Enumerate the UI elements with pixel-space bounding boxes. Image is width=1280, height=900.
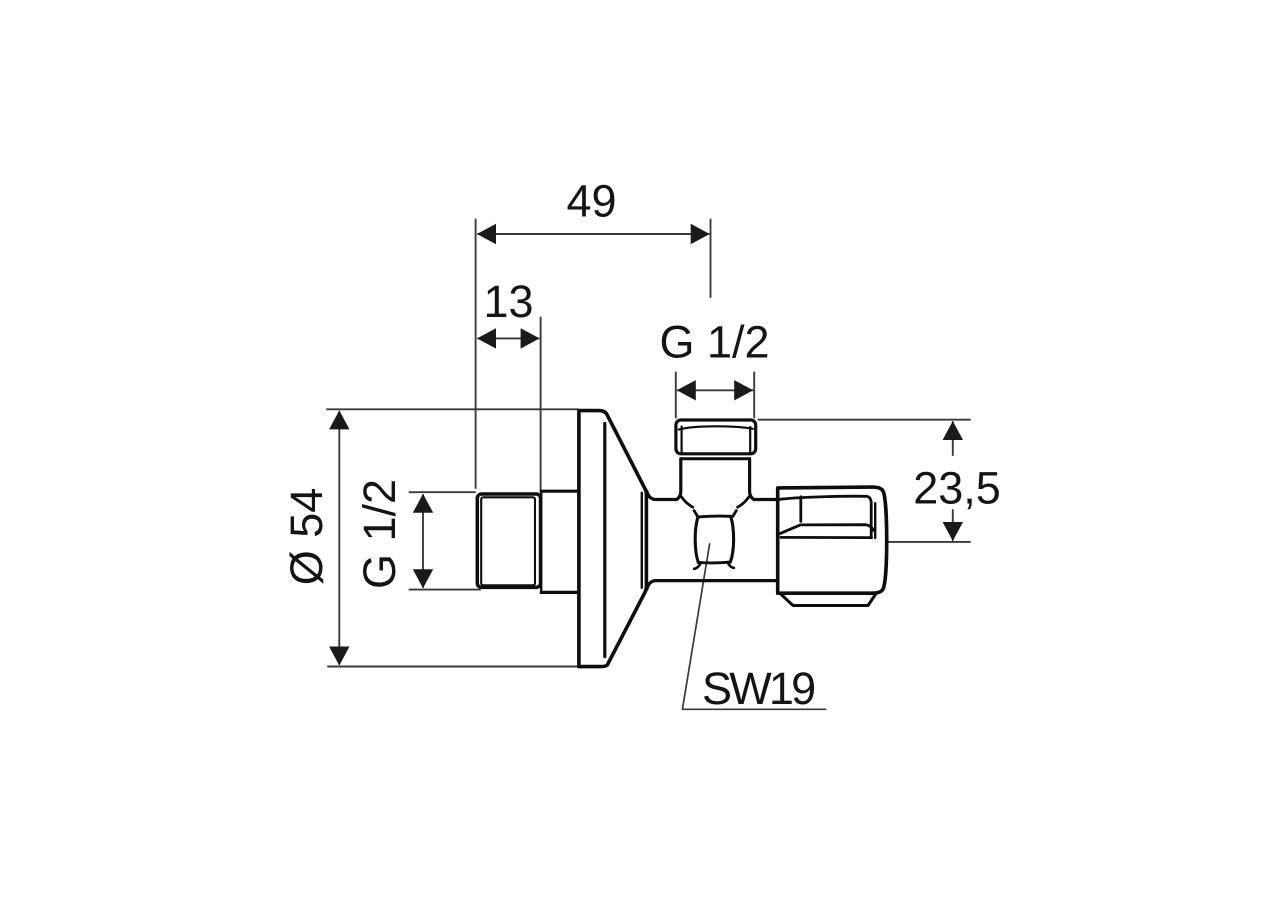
inlet shank bottom edge [541,591,579,594]
handle knob inner left groove [799,497,802,522]
SW19 leader line [682,544,825,709]
dimension 23,5 dimension line upper [952,422,954,455]
valve body top-left edge with fillets [647,459,681,500]
dimension 49 extension line left [475,220,477,489]
dimension 23,5 extension line top [759,419,971,421]
handle knob mid ridge upper edge [779,525,873,534]
dimension G 1/2 (outlet) extension line right [753,373,755,418]
dimension G 1/2 (outlet) arrowhead left [677,380,696,400]
dimension G 1/2 (outlet) extension line left [675,373,677,418]
outlet thread collar inner relief left [680,427,682,453]
handle knob mid ridge lower edge [781,536,872,539]
dimension G 1/2 (inlet) extension line top [410,491,476,493]
svg-text:G 1/2: G 1/2 [659,317,769,368]
dimension 23,5 arrowhead bottom [943,522,963,541]
svg-text:Ø 54: Ø 54 [281,488,332,586]
handle knob bottom skirt [781,594,876,606]
hex nut SW19 bottom-right back edge [728,564,734,568]
dimension 13 arrowhead right [521,328,540,348]
handle knob inner top edge [780,496,872,538]
dimension 23,5 arrowhead top [943,421,963,440]
handle knob outline [778,487,887,593]
dimension G 1/2 (outlet) dimension line [678,389,753,391]
outlet thread collar outline [676,420,756,454]
dimension D54 arrowhead top [329,410,349,429]
dimension 49 arrowhead right [691,224,710,244]
wall rosette front rim line [603,424,606,657]
hex nut SW19 right face [730,516,733,562]
dimension D54 arrowhead bottom [329,647,349,666]
internal funnel right edge [733,497,749,516]
dimension G 1/2 (inlet) extension line bottom [410,589,481,591]
hex nut SW19 bottom-left back edge [694,564,700,569]
dimension 23,5 dimension line lower [952,510,954,540]
dimension 49 arrowhead left [477,224,496,244]
svg-text:SW19: SW19 [702,663,814,714]
dimension 49 dimension line [478,233,709,235]
outlet thread collar top chamfer line [679,426,753,429]
dimension 13 dimension line [478,337,539,339]
inlet shank top edge [541,490,579,493]
outlet thread collar inner relief right [749,427,751,453]
dimension D54 extension line top [327,408,578,410]
dimension G 1/2 (inlet) dimension line [422,495,424,587]
valve body top-right edge with fillets [750,459,778,500]
svg-text:49: 49 [566,176,616,227]
dimension G 1/2 (inlet) arrowhead top [413,494,433,513]
dimension D54 extension line bottom [328,666,578,668]
hex nut SW19 bottom edge [698,561,730,565]
inlet thread G1/2 inner relief lines [481,497,535,585]
wall rosette cone inner edge [641,493,643,588]
svg-text:13: 13 [483,276,533,327]
internal funnel left edge [681,497,697,516]
dimension G 1/2 (outlet) arrowhead right [734,380,753,400]
dimension D54 dimension line [338,412,340,664]
dimension 23,5 extension line bottom [888,541,970,543]
outlet collar shoulder line [681,457,750,460]
dimension 13 arrowhead left [477,328,496,348]
svg-text:23,5: 23,5 [913,463,1001,514]
dimension 13 extension line right [540,318,542,490]
handle knob inner right relief [874,503,876,538]
dimension 49 extension line right [710,220,712,298]
svg-text:G 1/2: G 1/2 [354,479,405,589]
inlet shank right joint [540,491,542,592]
wall rosette outline [579,411,647,667]
valve body bottom edge [647,581,778,590]
hex nut SW19 left face [695,517,698,563]
hex nut SW19 top edge [698,515,731,519]
dimension G 1/2 (inlet) arrowhead bottom [413,569,433,588]
inlet thread G1/2 outer profile [477,494,540,587]
